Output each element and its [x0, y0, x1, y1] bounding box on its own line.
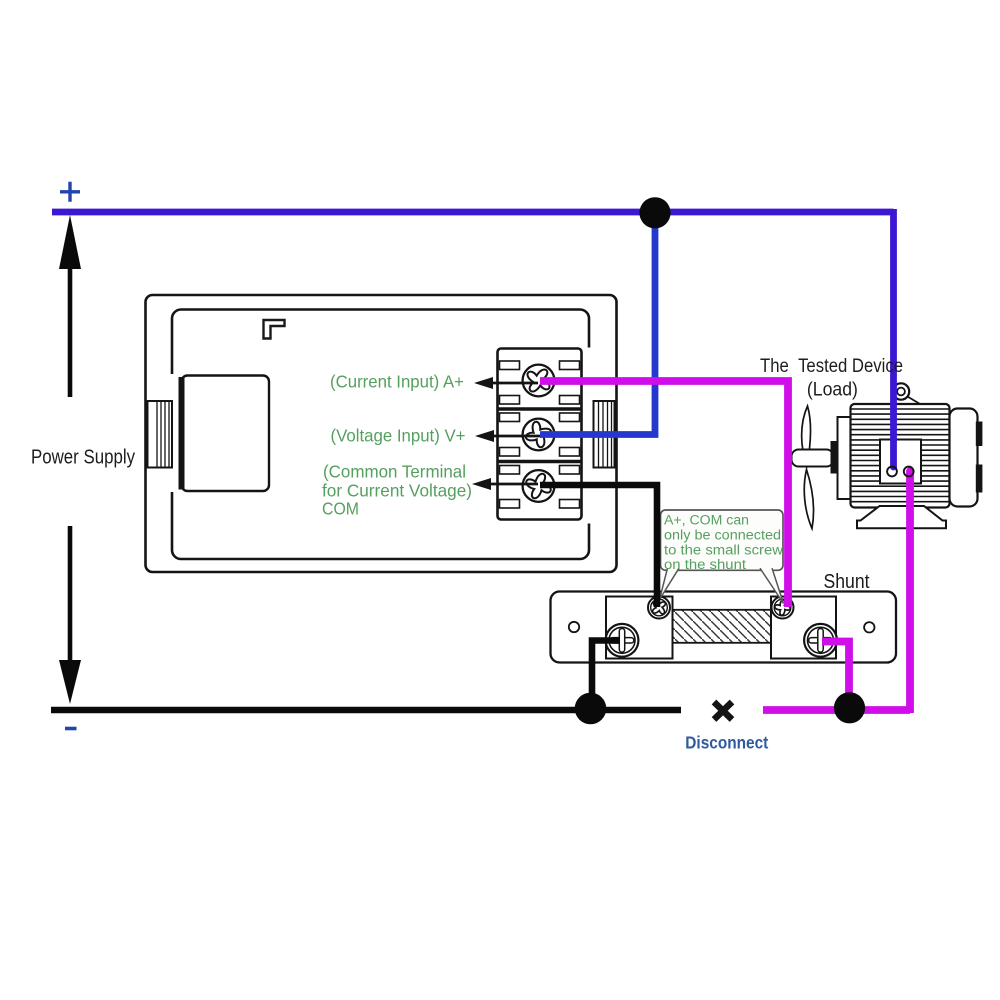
arrow label A+ [474, 377, 538, 389]
wire shunt left screw to negative rail [592, 641, 620, 707]
shunt left hole [569, 622, 579, 632]
screw COM [523, 470, 555, 502]
svg-text:on the shunt: on the shunt [664, 557, 746, 572]
motor shaft [792, 450, 834, 467]
screw V+ [523, 419, 555, 451]
svg-text:(Load): (Load) [807, 380, 858, 401]
motor front plate [838, 417, 851, 499]
arrow label V+ [475, 430, 540, 442]
shunt right block [771, 597, 836, 659]
LCD thick left edge [179, 377, 185, 490]
cover gap right of inner panel [584, 348, 594, 524]
arrow head down [59, 660, 81, 704]
arrow shaft lower [68, 526, 73, 664]
shunt body [551, 592, 897, 663]
shunt small screw right [772, 597, 794, 619]
arrow head up [59, 215, 81, 269]
shaft collar [831, 441, 838, 474]
motor terminal 1 ring [887, 467, 897, 477]
svg-text:A+, COM can: A+, COM can [664, 513, 749, 528]
wire tip blue at motor terminal [890, 464, 897, 471]
motor main body [851, 404, 950, 508]
minus symbol [65, 727, 77, 731]
svg-text:COM: COM [322, 499, 359, 519]
svg-text:(Common Terminal: (Common Terminal [323, 462, 466, 482]
meter outer case [146, 295, 617, 572]
end cap bar 1 [976, 422, 983, 447]
terminal block teeth right [560, 361, 580, 508]
terminal row divider 2 [498, 460, 582, 463]
negative rail (bottom black line) [51, 707, 681, 713]
motor ribs [851, 409, 949, 502]
wire COM black: screw COM right then down to shunt small screw left [540, 485, 657, 607]
terminal block body [498, 349, 582, 520]
fan blade upper [802, 406, 811, 466]
shunt big screw left [606, 624, 639, 657]
right mounting clip [594, 401, 615, 468]
svg-text:Power Supply: Power Supply [31, 447, 135, 469]
svg-text:to the small screw: to the small screw [664, 543, 783, 558]
wire tip magenta at motor terminal [907, 467, 914, 474]
svg-text:Disconnect: Disconnect [685, 733, 768, 753]
svg-text:(Voltage Input) V+: (Voltage Input) V+ [331, 426, 466, 446]
svg-text:(Current Input) A+: (Current Input) A+ [330, 372, 464, 392]
fan blade lower [804, 470, 813, 529]
shunt big screw right [804, 624, 837, 657]
shunt right hole [864, 622, 874, 632]
arrow label COM [472, 478, 538, 490]
wire bottom magenta rail to motor terminal 2 [763, 470, 910, 713]
disconnect cross [714, 702, 732, 720]
terminal row divider 1 [498, 407, 582, 410]
arrow shaft upper [68, 258, 73, 397]
plus symbol [60, 182, 80, 202]
wire A+ magenta: screw A+ right then down to shunt small screw right [540, 381, 788, 607]
meter inner panel [172, 310, 589, 560]
svg-text:for Current Voltage): for Current Voltage) [322, 481, 472, 501]
motor terminal white pads [887, 467, 897, 477]
shunt left block [606, 597, 673, 659]
junction node bottom right (magenta rail / shunt) [834, 692, 865, 723]
screw A+ [523, 365, 555, 397]
shunt small screw left [648, 597, 670, 619]
svg-text:only be connected: only be connected [664, 528, 781, 543]
motor pedestal [857, 506, 946, 528]
svg-text:The Tested Device: The Tested Device [760, 356, 903, 377]
terminal block teeth left [500, 361, 520, 508]
junction node top (+ rail / V+) [639, 197, 670, 228]
left mounting clip [148, 401, 173, 468]
cover gap left of inner panel [167, 374, 177, 492]
bubble tail left [660, 568, 680, 599]
end cap bar 2 [976, 465, 983, 493]
motor terminal box [880, 440, 921, 484]
wire shunt right screw to bottom magenta rail [822, 642, 849, 705]
motor end cap [950, 409, 978, 507]
shunt resistive bar hatched [673, 610, 772, 643]
motor terminal 2 ring [904, 467, 914, 477]
lifting eyelet [893, 383, 909, 399]
LCD display window [182, 376, 270, 492]
corner bracket mark [264, 320, 285, 339]
junction node bottom left (negative rail / shunt) [575, 693, 607, 725]
left clip ribs [157, 401, 169, 468]
wire positive rail blue: from + across top, down to motor terminal 1 [52, 209, 894, 468]
bubble tail right [760, 568, 784, 603]
bubble box [661, 510, 784, 570]
wire V+ blue: junction down then left to screw V+ [540, 210, 655, 435]
svg-text:Shunt: Shunt [824, 571, 870, 593]
right clip ribs [599, 401, 612, 468]
